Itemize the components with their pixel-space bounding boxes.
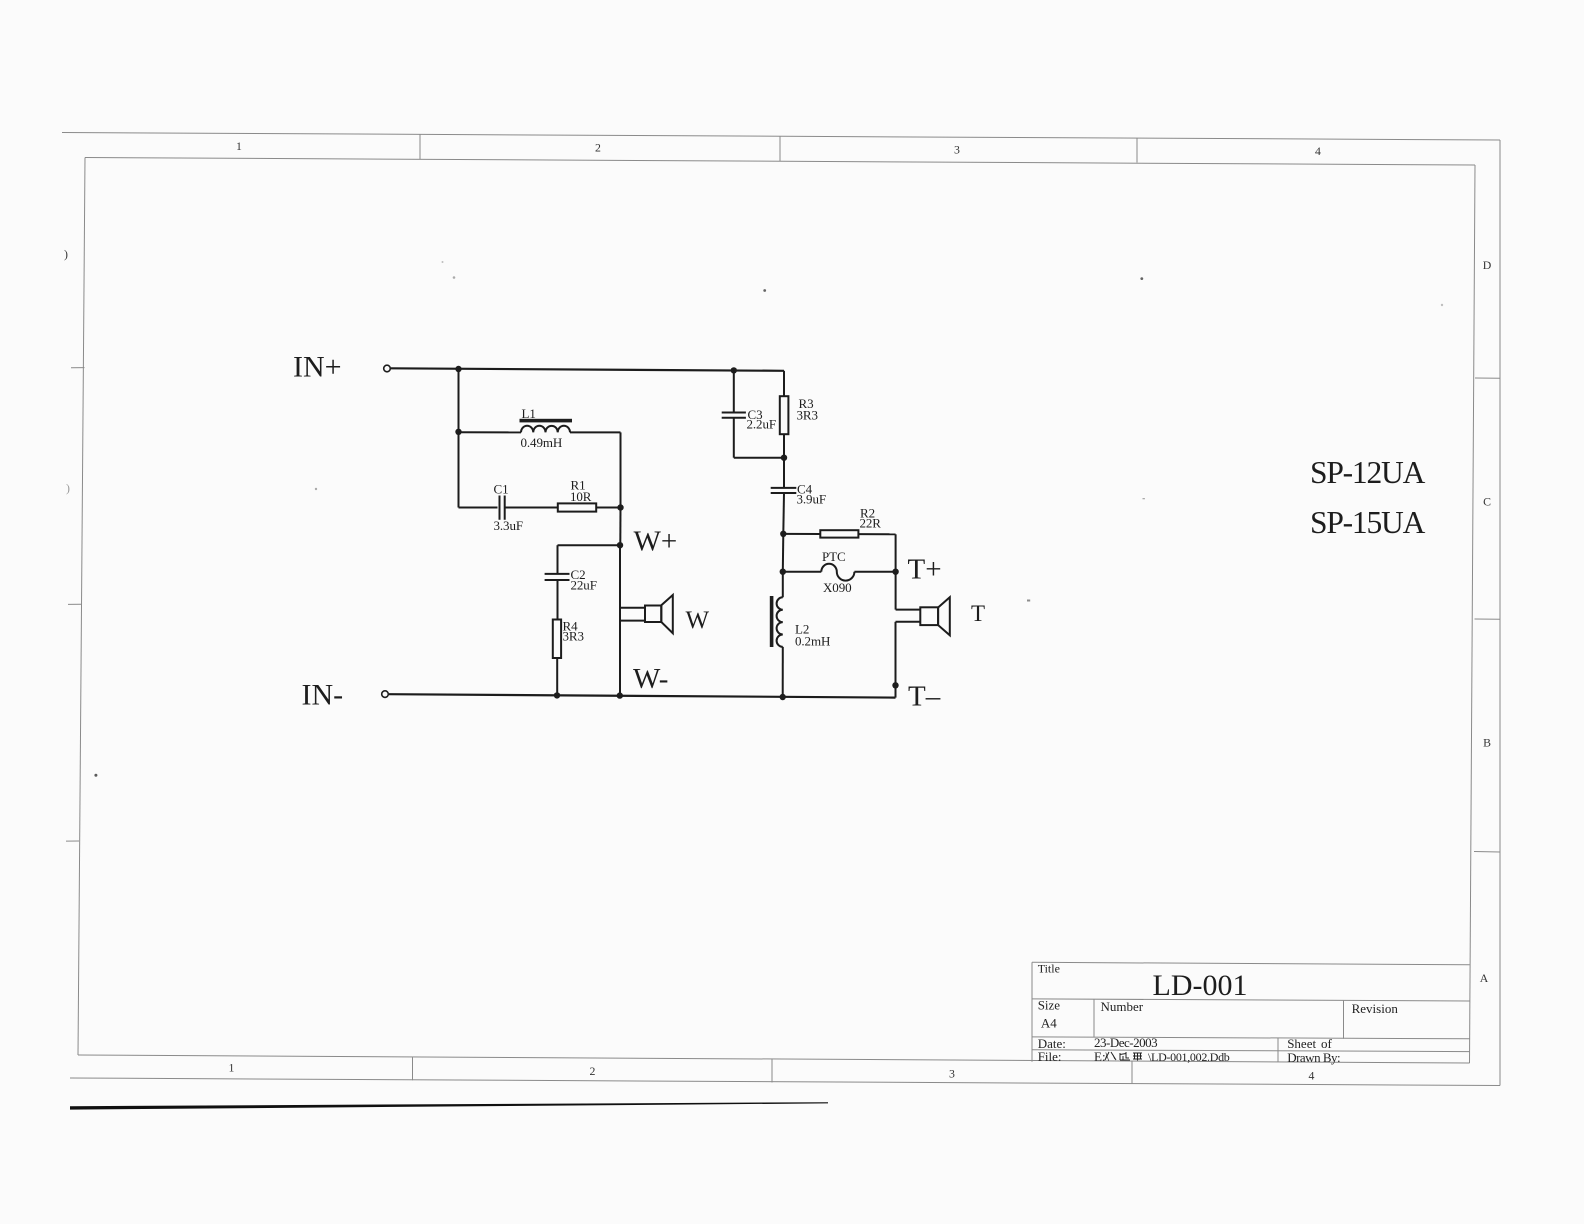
speaker T <box>920 597 985 635</box>
svg-text:3R3: 3R3 <box>797 408 818 423</box>
wire right vertical of L1 loop <box>620 432 622 507</box>
svg-text:T: T <box>971 601 985 626</box>
wire W+ stub to C2 branch <box>558 544 621 546</box>
resistor R1 <box>558 478 596 512</box>
scan specks (decorative) <box>442 261 444 263</box>
svg-text:LD-001: LD-001 <box>1153 969 1248 1002</box>
junction top-left <box>455 366 461 372</box>
svg-text:T+: T+ <box>908 554 942 586</box>
capacitor C4 <box>771 482 826 507</box>
wire R2 down to T+ <box>895 534 897 571</box>
junction R2 left <box>780 531 786 537</box>
border frame lines (decorative) <box>62 133 1500 141</box>
svg-text:4: 4 <box>1309 1069 1315 1083</box>
svg-text:Drawn By:: Drawn By: <box>1287 1050 1340 1065</box>
svg-text:22uF: 22uF <box>571 578 597 593</box>
junction C3 top <box>731 367 737 373</box>
terminal IN+ <box>384 365 391 372</box>
wire L1 right <box>570 431 621 433</box>
wire L1 left <box>459 431 522 433</box>
wire top rail <box>391 368 784 371</box>
capacitor C1 <box>494 482 523 534</box>
svg-text:3.9uF: 3.9uF <box>797 492 826 507</box>
svg-text:C1: C1 <box>494 482 509 497</box>
svg-text:L1: L1 <box>522 406 536 421</box>
title block (decorative) <box>1032 962 1470 965</box>
wire speaker W top stub <box>620 607 645 609</box>
wire C1 to R1 <box>505 507 558 509</box>
wire speaker T top stub <box>896 609 921 611</box>
junction T+ <box>892 569 898 575</box>
svg-text:Title: Title <box>1038 962 1060 976</box>
svg-text:): ) <box>64 247 68 261</box>
svg-text:C: C <box>1483 495 1491 509</box>
svg-text:W: W <box>686 607 710 634</box>
inductor L1 <box>520 406 573 450</box>
resistor R2 <box>820 506 881 538</box>
svg-text:Revision: Revision <box>1352 1001 1399 1016</box>
wire bottom rail <box>389 694 896 697</box>
svg-text:Sheet: Sheet <box>1287 1036 1316 1051</box>
svg-text:2: 2 <box>590 1064 596 1078</box>
wire L2 top <box>782 572 784 598</box>
svg-text:A: A <box>1480 971 1489 985</box>
svg-text:3: 3 <box>949 1067 955 1081</box>
wire R4 bottom <box>556 658 558 696</box>
resistor R3 <box>780 396 818 434</box>
wire to C4 <box>783 458 785 488</box>
svg-text:of: of <box>1321 1036 1333 1051</box>
wire R1 right <box>596 507 620 509</box>
svg-text:D: D <box>1483 258 1492 272</box>
junction PTC left <box>780 569 786 575</box>
junction below R3 <box>781 455 787 461</box>
scan artifact bar (decorative) <box>70 1102 828 1109</box>
svg-text:SP-12UA: SP-12UA <box>1310 455 1426 490</box>
svg-text:10R: 10R <box>570 489 592 504</box>
speaker W <box>645 595 710 634</box>
inductor L2 <box>770 596 830 649</box>
capacitor C2 <box>545 567 597 593</box>
svg-text:IN-: IN- <box>302 679 344 712</box>
svg-text:23-Dec-2003: 23-Dec-2003 <box>1094 1035 1157 1050</box>
PTC thermistor PTC X090 <box>821 549 854 595</box>
junction R4 bottom <box>554 692 560 698</box>
wire PTC right <box>854 571 895 573</box>
junction W+ <box>617 542 623 548</box>
junction R1 right <box>617 504 623 510</box>
svg-text:\LD-001,002.Ddb: \LD-001,002.Ddb <box>1148 1050 1230 1064</box>
wire speaker T bottom stub <box>896 621 921 623</box>
wire R3 top <box>783 371 785 396</box>
wire down to W+ <box>619 508 621 546</box>
terminal IN- <box>382 691 389 698</box>
junction L1 row <box>455 429 461 435</box>
wire C3 bottom vertical <box>733 418 735 458</box>
wire R2 right <box>858 533 895 535</box>
wire C2 to R4 <box>557 580 559 620</box>
wire C3 to R3 node <box>734 457 784 459</box>
wire PTC left <box>783 571 822 573</box>
svg-text:1: 1 <box>236 139 242 153</box>
svg-text:W+: W+ <box>634 526 678 558</box>
wire left vertical to C1 row <box>458 432 460 508</box>
svg-text:22R: 22R <box>860 516 882 531</box>
resistor R4 <box>553 619 584 659</box>
junction L2 bottom <box>780 694 786 700</box>
wire down to L1 row <box>458 369 460 432</box>
capacitor C3 <box>722 407 776 432</box>
svg-text:Number: Number <box>1101 999 1144 1014</box>
wire speaker W bottom stub <box>620 620 645 622</box>
svg-text:PTC: PTC <box>822 549 846 564</box>
svg-text:2.2uF: 2.2uF <box>747 417 776 432</box>
svg-text:3.3uF: 3.3uF <box>494 518 523 533</box>
svg-text:4: 4 <box>1315 144 1321 158</box>
wire C3 top vertical <box>733 370 735 412</box>
wire T vertical lower <box>895 622 897 698</box>
junction W bottom <box>617 692 623 698</box>
svg-text:SP-15UA: SP-15UA <box>1310 505 1426 540</box>
wire T vertical upper <box>895 572 897 610</box>
wire W main vertical <box>619 545 621 695</box>
wire L2 bottom <box>782 647 784 697</box>
svg-text:Size: Size <box>1038 998 1061 1013</box>
svg-text:IN+: IN+ <box>293 351 342 384</box>
svg-text:B: B <box>1483 736 1491 750</box>
svg-text:X090: X090 <box>823 580 852 595</box>
svg-text:3R3: 3R3 <box>563 629 584 644</box>
svg-text:3: 3 <box>954 143 960 157</box>
svg-text:0.49mH: 0.49mH <box>521 435 563 450</box>
svg-text:0.2mH: 0.2mH <box>795 634 830 649</box>
svg-text:A4: A4 <box>1041 1015 1057 1030</box>
wire C4 bottom <box>782 493 785 534</box>
svg-text:1: 1 <box>229 1061 235 1075</box>
wire R2 left <box>783 533 820 535</box>
wire C2 top <box>557 545 559 573</box>
svg-text:T–: T– <box>908 681 941 713</box>
svg-text:): ) <box>66 481 70 495</box>
wire PTC left vertical <box>782 534 785 572</box>
svg-text:W-: W- <box>633 663 668 695</box>
svg-text:2: 2 <box>595 141 601 155</box>
wire C1 left <box>459 507 498 509</box>
junction T- <box>892 682 898 688</box>
wire R3 bottom <box>783 434 785 458</box>
svg-text:File:: File: <box>1038 1049 1062 1064</box>
